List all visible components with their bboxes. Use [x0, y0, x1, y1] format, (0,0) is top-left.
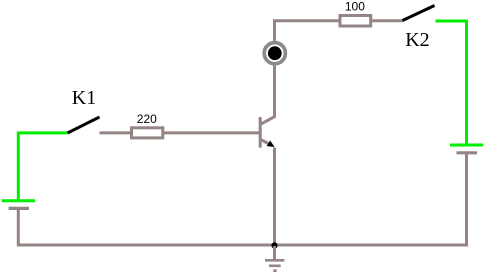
switch K1 lever — [68, 117, 100, 133]
lamp L1 body — [262, 41, 287, 66]
svg-text:100: 100 — [345, 0, 365, 14]
transistor Q1 emitter diagonal — [261, 139, 271, 144]
wire top from lamp to resistor 100 — [275, 21, 339, 46]
resistor 100 — [340, 16, 371, 27]
transistor Q1 emitter arrow — [267, 141, 275, 148]
lamp L1 filament dot (off) — [268, 46, 282, 60]
junction node — [271, 242, 277, 248]
svg-text:K2: K2 — [405, 29, 429, 51]
ground bar 2 — [269, 264, 281, 267]
svg-text:220: 220 — [137, 112, 157, 126]
battery B1 negative plate — [9, 207, 29, 210]
wire collector to lamp — [273, 48, 276, 117]
battery B2 negative plate — [457, 151, 478, 154]
switch K2 lever — [403, 6, 435, 21]
wire green switch K2 to battery B2 — [436, 21, 467, 144]
svg-text:K1: K1 — [72, 87, 96, 109]
transistor Q1 base bar — [259, 117, 262, 148]
wire battery B2 to bottom rail — [465, 154, 468, 247]
resistor 220 — [132, 128, 163, 138]
wire emitter to junction — [273, 148, 276, 247]
lamp L1 ring — [264, 43, 285, 64]
wire resistor 220 to transistor base — [164, 131, 259, 134]
wire switch K1 to resistor 220 — [100, 131, 132, 134]
ground bar 3 — [273, 269, 277, 272]
wire battery B1 to bottom rail — [17, 210, 20, 247]
battery B1 positive plate — [2, 199, 35, 202]
ground bar 1 — [265, 259, 284, 262]
wire green battery B1 to switch K1 — [18, 133, 67, 200]
battery B2 positive plate — [450, 144, 483, 147]
transistor Q1 collector diagonal — [261, 116, 276, 124]
wire resistor 100 to switch K2 — [372, 19, 403, 22]
ground stem — [273, 246, 276, 260]
wire bottom rail — [17, 244, 468, 247]
